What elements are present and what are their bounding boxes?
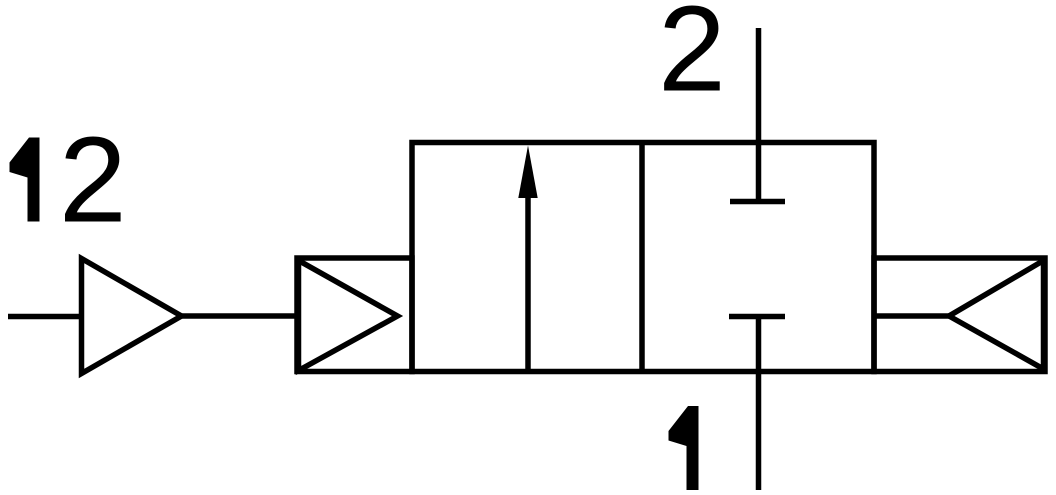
svg-text:2: 2 — [59, 112, 127, 248]
svg-text:2: 2 — [658, 0, 726, 116]
